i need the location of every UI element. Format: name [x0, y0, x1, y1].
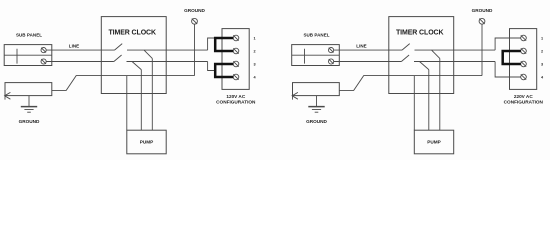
- svg-text:TIMER CLOCK: TIMER CLOCK: [108, 30, 156, 37]
- sub panel screw terminal top (B): [329, 48, 334, 53]
- wire vertical output1 to pump (A): [151, 58, 153, 130]
- ground wire from strip (B): [339, 76, 482, 91]
- wire line1 from sub panel to timer switch (A): [46, 49, 114, 51]
- sub panel divider line (A): [4, 54, 52, 56]
- receptacle box (A): [222, 29, 249, 90]
- earth ground symbol (A): [21, 96, 37, 113]
- wire vertical output2 to pump (B): [428, 70, 430, 131]
- receptacle box (B): [510, 29, 537, 90]
- wire switched output 2 (A): [127, 61, 208, 63]
- svg-text:SUB PANEL: SUB PANEL: [303, 33, 329, 38]
- receptacle screw terminal 4 (B): [521, 74, 527, 80]
- receptacle screw terminal 2 (B): [521, 48, 527, 54]
- receptacle screw terminal 3 (A): [233, 61, 239, 67]
- wire switched output 1 (A): [127, 49, 208, 51]
- svg-text:1: 1: [541, 37, 543, 41]
- switch blade 1 (A): [115, 44, 123, 51]
- ground strip left edge overshoot (A): [4, 91, 6, 100]
- sub panel screw terminal bottom (B): [329, 59, 334, 64]
- ground stem wire (A): [194, 24, 196, 75]
- sub panel divider line (B): [292, 54, 340, 56]
- wire jog up to receptacle terminal 1 (B): [495, 38, 521, 50]
- svg-text:SUB PANEL: SUB PANEL: [16, 33, 42, 38]
- timer clock box (A): [101, 17, 166, 94]
- svg-text:PUMP: PUMP: [427, 140, 441, 145]
- wire branch diagonal output1 to pump (A): [144, 50, 152, 58]
- arrow at ground strip corner (B): [292, 92, 298, 99]
- ground strip left edge overshoot (B): [292, 91, 294, 100]
- svg-text:GROUND: GROUND: [306, 119, 327, 124]
- switch blade 1 (B): [402, 44, 410, 51]
- svg-text:GROUND: GROUND: [184, 8, 205, 13]
- breaker tick (A): [16, 49, 18, 64]
- arrow at ground strip corner (A): [5, 92, 11, 99]
- sub panel box (B): [292, 45, 340, 66]
- breaker tick (B): [304, 49, 306, 64]
- wire line2 from sub panel to timer switch (A): [46, 61, 114, 63]
- wire jog up to receptacle terminal 1 (A): [208, 38, 216, 50]
- svg-text:GROUND: GROUND: [472, 8, 493, 13]
- wire branch diagonal output2 to pump (B): [420, 62, 429, 70]
- receptacle screw terminal 1 (A): [233, 35, 239, 41]
- jumper bar terminals 2-3 (B): [503, 51, 521, 64]
- receptacle screw terminal 4 (A): [233, 74, 239, 80]
- wire vertical output2 to pump (A): [140, 70, 142, 131]
- wire line1 from sub panel to timer switch (B): [334, 49, 402, 51]
- switch blade 2 (A): [114, 55, 122, 62]
- svg-text:4: 4: [253, 76, 256, 80]
- sub panel box (A): [4, 45, 52, 66]
- switch blade 2 (B): [401, 55, 409, 62]
- svg-text:LINE: LINE: [356, 43, 366, 48]
- svg-text:3: 3: [253, 63, 255, 67]
- wire jog down to receptacle terminal 4 (B): [495, 62, 521, 78]
- jumper bar terminals 1-2 (A): [215, 38, 233, 51]
- wire branch diagonal output2 to pump (A): [132, 62, 141, 70]
- earth ground symbol (B): [308, 96, 324, 113]
- svg-text:4: 4: [541, 76, 544, 80]
- ground strip box (B): [293, 83, 340, 96]
- ground wire drop to pump (A): [126, 76, 128, 131]
- sub panel screw terminal top (A): [41, 48, 46, 53]
- svg-text:PUMP: PUMP: [140, 140, 154, 145]
- wire switched output 1 (B): [415, 49, 496, 51]
- pump box (B): [414, 130, 453, 154]
- svg-text:1: 1: [253, 37, 255, 41]
- wire vertical output1 to pump (B): [439, 58, 441, 130]
- ground wire from strip (A): [52, 76, 195, 91]
- svg-text:2: 2: [253, 50, 255, 54]
- pump box (A): [127, 130, 166, 154]
- svg-text:2: 2: [541, 50, 543, 54]
- receptacle screw terminal 2 (A): [233, 48, 239, 54]
- timer clock box (B): [389, 17, 454, 94]
- wire jog down to receptacle jumper 3-4 (A): [208, 62, 216, 71]
- svg-text:TIMER CLOCK: TIMER CLOCK: [396, 30, 444, 37]
- svg-text:120V AC: 120V AC: [226, 94, 245, 99]
- wire line2 from sub panel to timer switch (B): [334, 61, 402, 63]
- receptacle screw terminal 1 (B): [521, 35, 527, 41]
- ground screw circle (B): [479, 18, 485, 24]
- svg-text:CONFIGURATION: CONFIGURATION: [216, 99, 256, 104]
- wire branch diagonal output1 to pump (B): [432, 50, 440, 58]
- svg-text:CONFIGURATION: CONFIGURATION: [504, 99, 544, 104]
- svg-text:LINE: LINE: [69, 43, 79, 48]
- ground strip box (A): [5, 83, 52, 96]
- ground wire drop to pump (B): [413, 76, 415, 131]
- svg-text:GROUND: GROUND: [19, 119, 40, 124]
- ground stem wire (B): [481, 24, 483, 75]
- receptacle screw terminal 3 (B): [521, 61, 527, 67]
- sub panel screw terminal bottom (A): [41, 59, 46, 64]
- wire switched output 2 (B): [414, 61, 495, 63]
- jumper bar terminals 3-4 (A): [215, 64, 233, 77]
- svg-text:220V AC: 220V AC: [514, 94, 533, 99]
- ground screw circle (A): [192, 18, 198, 24]
- svg-text:3: 3: [541, 63, 543, 67]
